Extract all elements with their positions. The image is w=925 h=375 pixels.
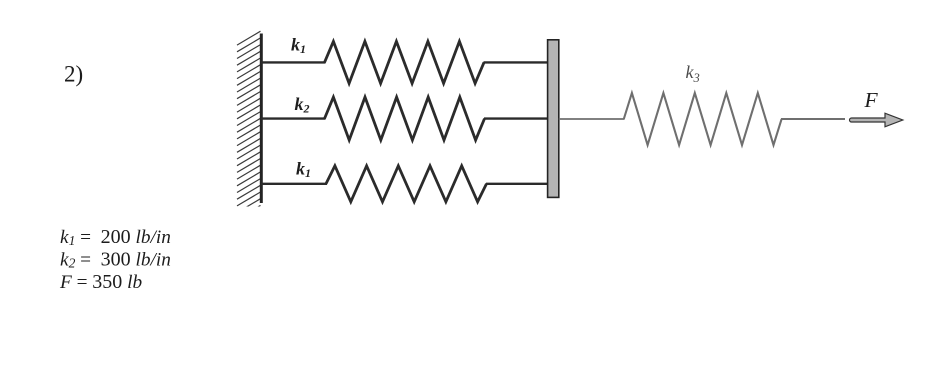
svg-text:k1: k1	[291, 35, 306, 57]
wall hatching	[237, 25, 261, 220]
wire spring k3 to force arrow	[781, 118, 845, 120]
svg-text:k2: k2	[295, 94, 310, 116]
spring k2	[325, 97, 485, 140]
label F	[864, 88, 879, 112]
svg-text:F: F	[864, 88, 879, 112]
label k2	[295, 94, 310, 116]
svg-text:k1: k1	[296, 159, 311, 181]
wire spring k2 to bar	[484, 117, 549, 119]
given value k1 = 200 lb/in	[60, 226, 171, 248]
svg-text:F = 350 lb: F = 350 lb	[59, 271, 142, 293]
given value F = 350 lb	[59, 271, 142, 293]
wire wall to spring k1 bottom	[261, 183, 327, 185]
rigid bar (plate)	[548, 40, 559, 198]
spring k3	[624, 93, 782, 145]
force arrow F	[850, 113, 903, 127]
label k1 bottom	[296, 159, 311, 181]
wire wall to spring k2	[261, 117, 326, 119]
wire wall to spring k1 top	[261, 61, 326, 63]
svg-text:k2 = 300 lb/in: k2 = 300 lb/in	[60, 249, 171, 271]
label k3	[686, 62, 700, 85]
label k1 top	[291, 35, 306, 57]
problem number label 2)	[64, 62, 83, 87]
wire spring k1 top to bar	[484, 61, 549, 63]
wall face line	[260, 34, 263, 204]
spring k1 bottom	[326, 166, 487, 202]
svg-text:k1 = 200 lb/in: k1 = 200 lb/in	[60, 226, 171, 248]
svg-text:2): 2)	[64, 62, 83, 87]
given value k2 = 300 lb/in	[60, 249, 171, 271]
svg-text:k3: k3	[686, 62, 700, 85]
wire bar to spring k3	[559, 118, 625, 120]
wire spring k1 bottom to bar	[486, 183, 549, 185]
spring k1 top	[325, 41, 485, 83]
